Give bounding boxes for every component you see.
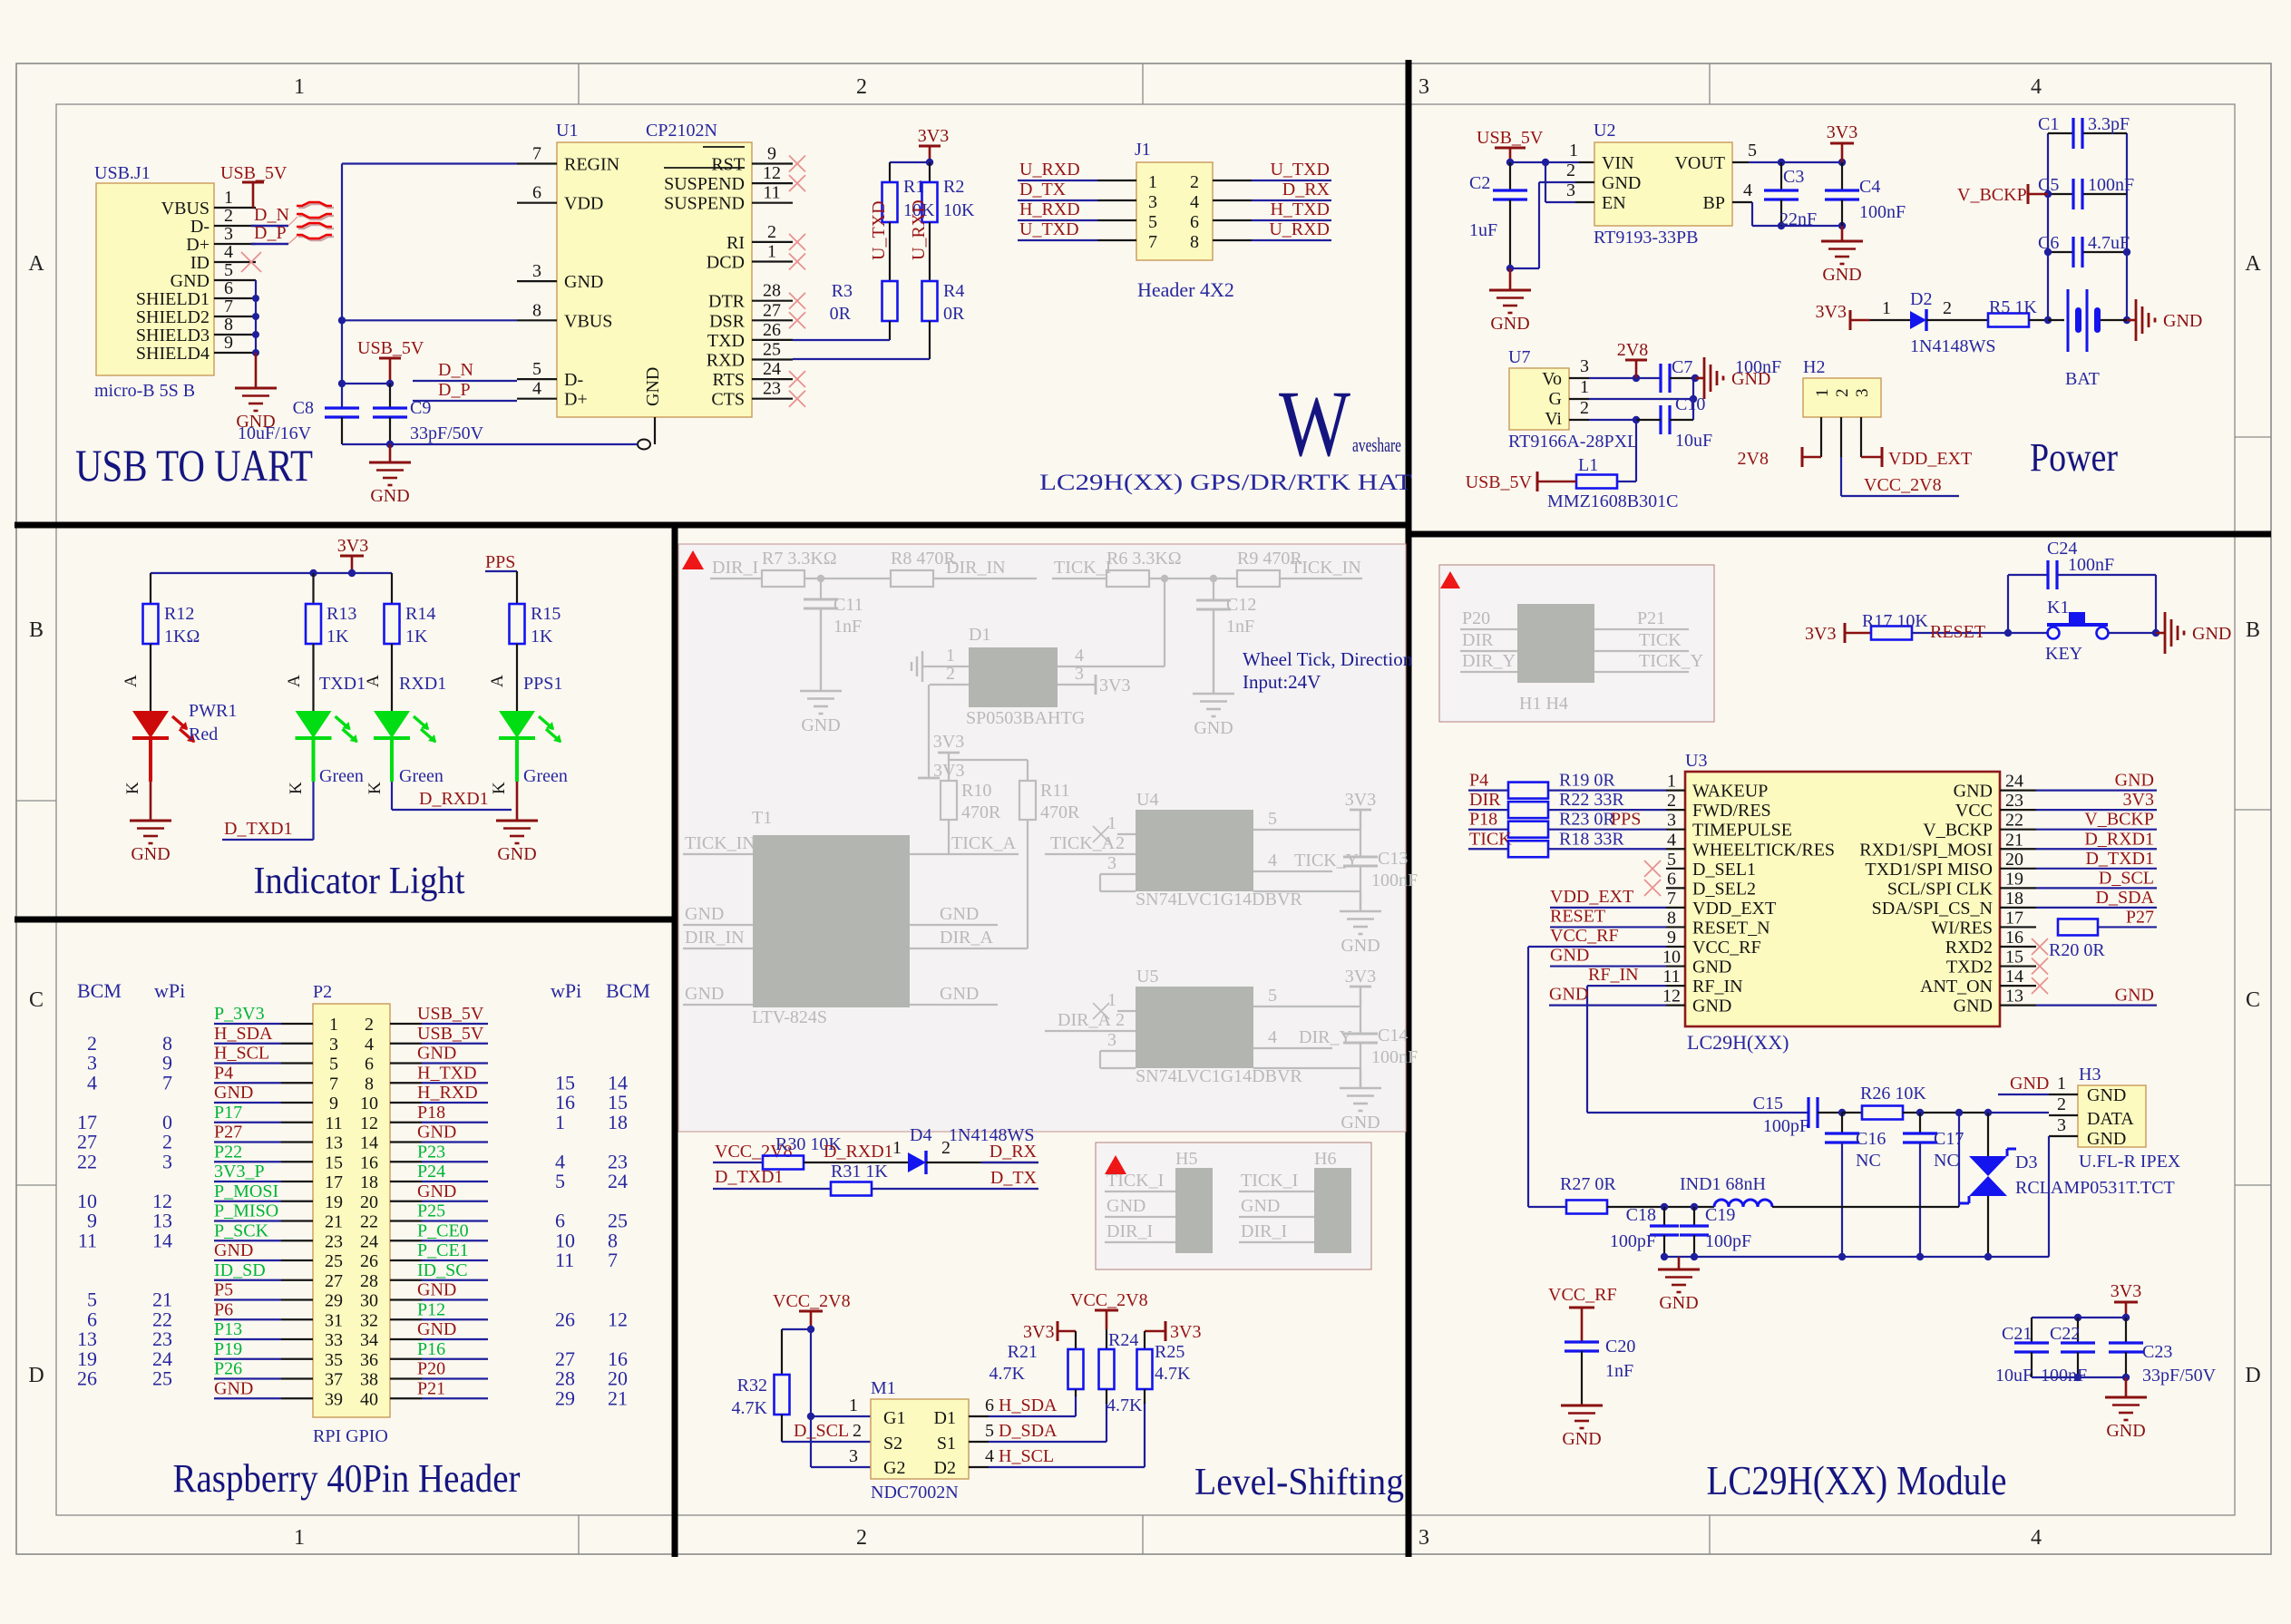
svg-text:RF_IN: RF_IN: [1692, 977, 1743, 997]
svg-text:U3: U3: [1685, 751, 1707, 771]
svg-text:RESET: RESET: [1930, 622, 1985, 642]
svg-text:P22: P22: [214, 1142, 242, 1162]
svg-text:TICK_A: TICK_A: [1050, 833, 1116, 853]
resistor R17 10K: [1871, 627, 1912, 640]
faded resistor R6 3.3K: [1107, 570, 1149, 587]
net VDD_EXT pin7: [1550, 907, 1666, 909]
svg-text:GND: GND: [417, 1319, 456, 1339]
svg-text:11: 11: [78, 1229, 97, 1251]
sheet divider thick lines: [672, 523, 678, 1557]
svg-text:P21: P21: [1637, 608, 1665, 628]
svg-text:VCC_2V8: VCC_2V8: [1864, 475, 1942, 495]
svg-text:6: 6: [1667, 869, 1676, 889]
svg-text:H3: H3: [2079, 1065, 2101, 1084]
svg-text:29: 29: [555, 1386, 575, 1409]
U1 pin 28 DTR: [752, 300, 793, 302]
svg-text:D2: D2: [1910, 289, 1932, 309]
svg-text:GND: GND: [1107, 1196, 1145, 1216]
svg-text:9: 9: [1667, 928, 1676, 948]
svg-text:20: 20: [360, 1192, 378, 1212]
svg-text:15: 15: [325, 1152, 343, 1172]
svg-text:2: 2: [1833, 389, 1852, 398]
resistor R19: [1468, 789, 1508, 791]
svg-text:8: 8: [532, 300, 541, 320]
svg-text:6: 6: [1190, 212, 1199, 232]
svg-text:G1: G1: [883, 1408, 905, 1428]
svg-text:R13: R13: [327, 604, 356, 624]
resistor R15 1K: [510, 604, 525, 644]
svg-text:100pF: 100pF: [1705, 1231, 1751, 1251]
svg-text:26: 26: [555, 1308, 575, 1330]
svg-text:TXD1/SPI MISO: TXD1/SPI MISO: [1865, 860, 1993, 880]
svg-text:3: 3: [1148, 192, 1157, 212]
svg-text:24: 24: [360, 1231, 378, 1251]
svg-text:23: 23: [2005, 791, 2023, 811]
svg-text:SP0503BAHTG: SP0503BAHTG: [966, 708, 1085, 728]
svg-text:100pF: 100pF: [1610, 1231, 1656, 1251]
svg-text:GND: GND: [1692, 958, 1731, 977]
U3 pin 24 GND: [2000, 789, 2036, 791]
svg-text:WAKEUP: WAKEUP: [1692, 782, 1768, 802]
svg-text:24: 24: [608, 1170, 628, 1192]
svg-text:DATA: DATA: [2087, 1109, 2134, 1129]
svg-text:26: 26: [360, 1251, 378, 1271]
svg-text:16: 16: [360, 1152, 378, 1172]
svg-text:IND1 68nH: IND1 68nH: [1680, 1174, 1766, 1194]
P2 pins 23 24 P_SCK | P_CE0: [281, 1240, 313, 1241]
P2 pins 31 32 P6 | P12: [281, 1318, 313, 1320]
svg-text:4: 4: [2031, 75, 2042, 99]
net RESET pin8: [1550, 926, 1666, 928]
svg-text:B: B: [29, 618, 44, 642]
svg-text:CP2102N: CP2102N: [646, 121, 717, 141]
svg-text:VBUS: VBUS: [564, 311, 612, 331]
svg-text:D1: D1: [969, 625, 990, 645]
U3 pin 3 TIMEPULSE: [1666, 829, 1685, 831]
svg-text:8: 8: [1190, 232, 1199, 252]
wire 3V3 to R1 R2: [890, 161, 930, 163]
svg-text:G2: G2: [883, 1458, 905, 1478]
P2 pins 27 28 ID_SD | ID_SC: [281, 1279, 313, 1281]
svg-text:wPi: wPi: [551, 979, 581, 1002]
svg-text:R2: R2: [943, 177, 964, 197]
svg-text:VCC: VCC: [1955, 801, 1993, 821]
svg-text:R25: R25: [1155, 1342, 1184, 1362]
svg-text:GND: GND: [497, 844, 536, 864]
svg-text:R21: R21: [1008, 1342, 1038, 1362]
svg-text:VCC_2V8: VCC_2V8: [773, 1291, 851, 1311]
resistor R3 0R: [882, 281, 898, 321]
svg-text:D_N: D_N: [438, 360, 473, 380]
svg-text:11: 11: [1662, 967, 1680, 987]
svg-text:100nF: 100nF: [1859, 202, 1906, 222]
svg-text:C19: C19: [1705, 1205, 1735, 1225]
svg-text:GND: GND: [214, 1240, 253, 1260]
U3 pin 20 TXD1/SPI MISO: [2000, 868, 2036, 870]
svg-text:PPS: PPS: [485, 552, 515, 572]
svg-text:H_SDA: H_SDA: [999, 1395, 1058, 1415]
svg-text:USB_5V: USB_5V: [417, 1024, 484, 1044]
svg-text:M1: M1: [871, 1378, 896, 1398]
IC U1 CP2102N: [557, 142, 752, 417]
svg-text:S2: S2: [883, 1434, 902, 1454]
svg-text:13: 13: [2005, 987, 2023, 1006]
svg-text:GND: GND: [214, 1378, 253, 1398]
svg-text:GND: GND: [1954, 782, 1993, 802]
svg-text:RXD: RXD: [707, 351, 745, 371]
svg-text:VIN: VIN: [1602, 153, 1634, 173]
wire to C24: [2007, 575, 2009, 633]
svg-text:GND: GND: [1490, 314, 1529, 334]
svg-text:29: 29: [325, 1291, 343, 1311]
svg-text:R24: R24: [1108, 1330, 1138, 1350]
svg-text:DSR: DSR: [709, 311, 746, 331]
U1 pin 23 CTS: [752, 398, 793, 400]
TVS diode D3 RCLAMP0531T.TCT: [1987, 1113, 1989, 1156]
svg-text:3: 3: [1853, 389, 1872, 398]
U3 pin 9 VCC_RF: [1666, 946, 1685, 948]
svg-text:1uF: 1uF: [1469, 220, 1497, 240]
svg-text:1nF: 1nF: [834, 617, 862, 637]
svg-text:P24: P24: [417, 1162, 445, 1182]
svg-text:33pF/50V: 33pF/50V: [410, 423, 484, 443]
svg-text:U_TXD: U_TXD: [1270, 160, 1330, 180]
svg-text:U_TXD: U_TXD: [869, 200, 889, 260]
wire resistor to LED anode: [391, 644, 393, 711]
svg-text:USB.J1: USB.J1: [94, 163, 151, 183]
svg-text:U_RXD: U_RXD: [1269, 219, 1330, 239]
svg-text:1K: 1K: [405, 627, 428, 647]
svg-text:39: 39: [325, 1389, 343, 1409]
USB.J1 pin 3 D+: [214, 243, 256, 245]
faded gnd flag at D1 pin1: [921, 651, 923, 682]
P2 pins 5 6 H_SCL | GND: [281, 1062, 313, 1064]
svg-text:2: 2: [1667, 791, 1676, 811]
svg-text:2: 2: [1190, 172, 1199, 192]
svg-text:4: 4: [1075, 646, 1084, 666]
ground below C23: [2125, 1377, 2128, 1397]
svg-text:U_RXD: U_RXD: [1019, 160, 1080, 180]
P2 pins 15 16 P22 | P23: [281, 1161, 313, 1162]
P2 pins 13 14 P27 | GND: [281, 1141, 313, 1143]
wire C8 C9 to U1 GND: [341, 417, 343, 444]
svg-text:4: 4: [365, 1035, 374, 1055]
H2 pin3 wire to VDD_EXT: [1860, 417, 1862, 457]
net GND pin10: [1550, 965, 1666, 967]
svg-text:DIR_I: DIR_I: [1241, 1221, 1287, 1241]
svg-text:GND: GND: [2087, 1129, 2126, 1149]
U7 Vo pin3 wire: [1569, 377, 1589, 379]
svg-text:DIR_A: DIR_A: [940, 928, 993, 948]
wire resistor to LED anode: [312, 644, 314, 711]
svg-text:R17 10K: R17 10K: [1862, 611, 1928, 631]
svg-text:3V3: 3V3: [933, 732, 964, 752]
capacitor C9 33pF/50V: [373, 406, 407, 409]
svg-text:D_TX: D_TX: [1019, 180, 1067, 199]
IC U3 LC29H(XX): [1685, 772, 2000, 1026]
svg-text:VCC_RF: VCC_RF: [1548, 1285, 1617, 1305]
svg-text:31: 31: [325, 1310, 343, 1330]
svg-text:2: 2: [1943, 298, 1952, 318]
svg-text:D_TXD1: D_TXD1: [2085, 849, 2154, 869]
svg-text:GND: GND: [801, 715, 840, 735]
svg-text:D_TXD1: D_TXD1: [224, 819, 293, 839]
svg-text:Vo: Vo: [1542, 369, 1562, 389]
wire R4 to U1 RXD: [929, 321, 931, 359]
svg-text:D-: D-: [564, 370, 583, 390]
resistor R14 1K: [385, 604, 400, 644]
svg-text:1: 1: [767, 242, 776, 262]
svg-text:1: 1: [1882, 298, 1891, 318]
svg-text:4.7K: 4.7K: [732, 1398, 768, 1418]
svg-text:3: 3: [2057, 1115, 2066, 1135]
svg-text:LC29H(XX): LC29H(XX): [1687, 1031, 1789, 1054]
capacitor C17 NC: [1919, 1113, 1921, 1133]
no-connect X on ID pin: [241, 252, 261, 272]
svg-text:H_TXD: H_TXD: [1270, 199, 1330, 219]
diode D4 1N4148WS: [908, 1152, 926, 1172]
svg-text:SCL/SPI CLK: SCL/SPI CLK: [1887, 879, 1994, 899]
svg-text:Red: Red: [189, 724, 218, 744]
svg-text:3V3: 3V3: [2123, 790, 2154, 810]
H3 pin2 DATA wire: [2049, 1114, 2078, 1116]
svg-text:RT9166A-28PXL: RT9166A-28PXL: [1508, 432, 1638, 452]
capacitor C20 1nF: [1581, 1341, 1583, 1343]
svg-text:20: 20: [2005, 850, 2023, 870]
svg-text:H2: H2: [1803, 357, 1825, 377]
svg-text:Indicator Light: Indicator Light: [254, 861, 465, 902]
svg-text:DIR_IN: DIR_IN: [685, 928, 745, 948]
svg-text:1K: 1K: [327, 627, 349, 647]
svg-text:C: C: [29, 988, 44, 1012]
svg-text:Vi: Vi: [1545, 409, 1562, 429]
svg-text:P13: P13: [214, 1319, 242, 1339]
svg-text:P27: P27: [2126, 907, 2154, 927]
svg-text:21: 21: [2005, 830, 2023, 850]
svg-text:26: 26: [77, 1367, 97, 1390]
svg-text:3: 3: [849, 1446, 858, 1466]
U3 pin 4 WHEELTICK/RES: [1666, 848, 1685, 850]
svg-text:1: 1: [294, 1526, 305, 1550]
P2 pins 33 34 P13 | GND: [281, 1338, 313, 1340]
svg-text:WHEELTICK/RES: WHEELTICK/RES: [1692, 840, 1835, 860]
U3 pin 14 ANT_ON: [2000, 985, 2036, 987]
resistor R27 0R: [1566, 1201, 1607, 1214]
svg-text:DIR_A: DIR_A: [1058, 1010, 1111, 1030]
svg-text:GND: GND: [1562, 1429, 1601, 1449]
svg-text:VCC_RF: VCC_RF: [1692, 938, 1761, 958]
svg-text:TICK_Y: TICK_Y: [1639, 651, 1703, 671]
svg-text:3: 3: [1566, 180, 1575, 200]
svg-text:GND: GND: [370, 486, 409, 506]
svg-text:S1: S1: [937, 1434, 956, 1454]
svg-text:TICK_IN: TICK_IN: [1291, 558, 1361, 578]
svg-text:GND: GND: [2163, 311, 2202, 331]
svg-text:RT9193-33PB: RT9193-33PB: [1594, 228, 1698, 248]
svg-text:D-: D-: [190, 217, 210, 237]
svg-text:12: 12: [608, 1308, 628, 1330]
faded capacitor C11 1nF: [820, 579, 822, 599]
U3 pin 19 SCL/SPI CLK: [2000, 887, 2036, 889]
svg-text:3: 3: [1418, 1526, 1429, 1550]
svg-text:R11: R11: [1040, 781, 1070, 801]
svg-text:VCC_2V8: VCC_2V8: [1070, 1290, 1148, 1310]
svg-text:3V3: 3V3: [2111, 1281, 2141, 1301]
svg-text:R20 0R: R20 0R: [2049, 940, 2105, 960]
svg-text:DCD: DCD: [707, 253, 745, 273]
U3 pin 12 GND: [1666, 1005, 1685, 1006]
svg-text:1: 1: [329, 1015, 338, 1035]
U2 pin2 GND wire: [1575, 181, 1594, 183]
svg-text:3V3: 3V3: [1345, 967, 1376, 987]
capacitor C8 10uF/16V: [325, 406, 359, 409]
svg-text:3V3: 3V3: [918, 126, 949, 146]
svg-text:33pF/50V: 33pF/50V: [2142, 1366, 2217, 1386]
svg-text:D_RXD1: D_RXD1: [2084, 829, 2154, 849]
svg-text:470R: 470R: [1040, 802, 1080, 822]
svg-text:38: 38: [360, 1370, 378, 1390]
svg-text:11: 11: [325, 1113, 342, 1133]
net label D_RXD1 wire: [391, 782, 393, 810]
svg-text:D_RX: D_RX: [1282, 180, 1331, 199]
svg-text:RESET: RESET: [1550, 906, 1605, 926]
svg-text:B: B: [2246, 618, 2260, 642]
U3 pin 16 RXD2: [2000, 946, 2036, 948]
svg-text:4: 4: [224, 242, 233, 262]
svg-text:3: 3: [1580, 356, 1589, 376]
svg-text:RF_IN: RF_IN: [1588, 965, 1639, 985]
right side nets: [2036, 789, 2157, 791]
U1 pin 11 SUSPEND: [752, 202, 793, 204]
svg-text:FWD/RES: FWD/RES: [1692, 801, 1771, 821]
wire USB_5V vertical to REGIN and VBUS: [342, 162, 517, 164]
svg-text:GND: GND: [1692, 997, 1731, 1016]
svg-text:VDD: VDD: [564, 194, 603, 214]
U3 pin 2 FWD/RES: [1666, 809, 1685, 811]
svg-text:D: D: [28, 1364, 44, 1387]
U1 pin 25 RXD: [752, 358, 793, 360]
svg-text:GND: GND: [2106, 1421, 2145, 1441]
svg-text:21: 21: [325, 1212, 343, 1232]
svg-text:PPS: PPS: [1611, 810, 1641, 830]
svg-text:3V3_P: 3V3_P: [214, 1162, 265, 1182]
svg-text:LTV-824S: LTV-824S: [752, 1007, 827, 1027]
net label RESET: [1912, 632, 2008, 634]
svg-text:5: 5: [224, 260, 233, 280]
svg-text:K: K: [287, 782, 306, 794]
svg-text:NDC7002N: NDC7002N: [871, 1483, 959, 1502]
net GND pin12: [1549, 1005, 1666, 1006]
svg-text:1: 1: [224, 188, 233, 208]
svg-text:D_SEL2: D_SEL2: [1692, 879, 1756, 899]
svg-text:K: K: [366, 782, 385, 794]
svg-text:GND: GND: [1549, 985, 1588, 1005]
J1 pins 5 6: [1097, 219, 1136, 221]
J1 pins 3 4: [1097, 199, 1136, 201]
header J1 Header 4X2: [1136, 162, 1213, 260]
capacitor C19 100pF: [1693, 1207, 1695, 1226]
svg-text:REGIN: REGIN: [564, 155, 619, 175]
svg-text:PWR1: PWR1: [189, 701, 237, 721]
battery BAT: [2048, 319, 2064, 321]
connector USB.J1 micro-B 5S B: [96, 183, 214, 375]
USB.J1 pin 5 GND: [214, 279, 256, 281]
svg-text:USB_5V: USB_5V: [220, 163, 288, 183]
svg-text:7: 7: [1148, 232, 1157, 252]
ground GND below C9: [389, 444, 392, 462]
svg-text:DIR_I: DIR_I: [1107, 1221, 1153, 1241]
faded resistor R8 470R: [891, 570, 933, 587]
svg-text:RST: RST: [711, 155, 745, 175]
svg-text:4: 4: [1268, 851, 1277, 870]
svg-text:30: 30: [360, 1291, 378, 1311]
svg-text:A: A: [122, 675, 141, 687]
svg-text:D2: D2: [934, 1458, 956, 1478]
svg-text:USB_5V: USB_5V: [417, 1004, 484, 1024]
svg-text:NC: NC: [1934, 1151, 1959, 1171]
svg-text:18: 18: [360, 1172, 378, 1192]
svg-text:25: 25: [763, 340, 781, 360]
svg-text:D_SDA: D_SDA: [2096, 888, 2155, 908]
svg-text:28: 28: [360, 1271, 378, 1291]
svg-text:17: 17: [325, 1172, 343, 1192]
faded H5 H6 spare pads box: [1096, 1143, 1371, 1269]
svg-text:2: 2: [856, 75, 867, 99]
svg-text:100nF: 100nF: [1371, 1047, 1418, 1067]
svg-text:P18: P18: [417, 1103, 445, 1123]
ground below C20: [1581, 1404, 1584, 1405]
svg-text:1: 1: [2057, 1074, 2066, 1094]
svg-text:GND: GND: [1241, 1196, 1280, 1216]
svg-text:6: 6: [532, 183, 541, 203]
svg-text:U.FL-R IPEX: U.FL-R IPEX: [2079, 1152, 2181, 1172]
svg-text:GND: GND: [1659, 1293, 1698, 1313]
svg-text:ID_SC: ID_SC: [417, 1260, 468, 1280]
svg-text:C14: C14: [1378, 1026, 1408, 1045]
svg-text:3V3: 3V3: [1816, 302, 1847, 322]
svg-text:GND: GND: [685, 984, 724, 1004]
svg-text:10uF: 10uF: [1675, 431, 1712, 451]
svg-text:2: 2: [224, 206, 233, 226]
svg-text:D4: D4: [910, 1125, 931, 1145]
svg-text:V_BCKP: V_BCKP: [1923, 821, 1993, 841]
svg-text:2: 2: [365, 1015, 374, 1035]
resistor R2 10K: [922, 182, 938, 222]
svg-text:1: 1: [892, 1138, 902, 1158]
svg-text:D_RXD1: D_RXD1: [824, 1142, 893, 1162]
H3 pin1 GND: [2049, 1094, 2078, 1095]
svg-text:R31 1K: R31 1K: [831, 1162, 888, 1182]
svg-text:K: K: [490, 782, 509, 794]
U3 pin 21 RXD1/SPI_MOSI: [2000, 848, 2036, 850]
P2 pins 17 18 3V3_P | P24: [281, 1181, 313, 1182]
svg-text:24: 24: [2005, 772, 2023, 792]
U1 pin 26 TXD: [752, 339, 793, 341]
svg-text:R3: R3: [832, 281, 853, 301]
svg-text:DIR_Y: DIR_Y: [1462, 651, 1516, 671]
svg-text:R4: R4: [943, 281, 964, 301]
U3 pin 8 RESET_N: [1666, 926, 1685, 928]
U3 pin 1 WAKEUP: [1666, 789, 1685, 791]
svg-text:R14: R14: [405, 604, 435, 624]
svg-text:28: 28: [763, 281, 781, 301]
svg-text:100nF: 100nF: [2088, 175, 2134, 195]
faded resistor R9 470R: [1237, 570, 1280, 587]
svg-text:14: 14: [2005, 967, 2023, 987]
svg-text:3: 3: [1075, 664, 1084, 684]
svg-text:GND: GND: [417, 1182, 456, 1201]
svg-text:GND: GND: [1340, 936, 1379, 956]
